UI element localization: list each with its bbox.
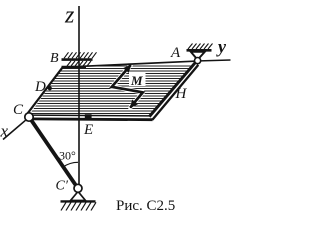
- pin circle at C': [74, 184, 82, 192]
- plate left edge B-C: [28, 67, 64, 114]
- E point tick on bottom edge: [85, 114, 92, 118]
- ground line under C': [61, 200, 96, 202]
- y axis: [201, 59, 231, 62]
- pin support at A: triangle: [191, 52, 205, 60]
- svg-text:30°: 30°: [59, 149, 76, 163]
- svg-text:C′: C′: [56, 179, 69, 194]
- svg-text:x: x: [0, 122, 9, 141]
- wall support at B: hatch strokes between lines: [67, 61, 91, 66]
- svg-text:z: z: [64, 3, 75, 29]
- svg-text:M: M: [130, 73, 143, 88]
- 30 degree arc: [63, 162, 78, 167]
- plate bottom surface edge C-corner: [32, 114, 150, 117]
- pin circle at C: [25, 113, 33, 121]
- couple M top arrowhead: [123, 64, 131, 73]
- svg-text:A: A: [170, 45, 181, 61]
- white hole in hatching around couple M arrows: [112, 65, 143, 108]
- pin support at A: ceiling line: [187, 49, 212, 52]
- svg-text:y: y: [216, 37, 227, 57]
- wall support at B: upper wall line: [62, 58, 93, 61]
- white box behind M label: [129, 72, 146, 86]
- ground hatch strokes: [61, 202, 96, 210]
- svg-text:E: E: [83, 122, 93, 138]
- plate right thickness line: [152, 65, 198, 120]
- x axis: [3, 120, 26, 139]
- plate top edge B-A: [63, 61, 195, 67]
- D point dot: [48, 86, 52, 90]
- pin support at A: hatch strokes above ceiling: [188, 44, 213, 50]
- pin circle at A: [195, 58, 201, 64]
- plate hatching (horizontal shading lines of plate surface): [20, 66, 200, 114]
- strut rod C-C': [32, 121, 77, 187]
- svg-text:H: H: [175, 86, 188, 102]
- wall support at B: lower wall line: [62, 66, 87, 69]
- couple M arrows (black): [112, 65, 143, 108]
- svg-text:B: B: [50, 51, 59, 66]
- couple M bottom arrowhead: [130, 100, 138, 109]
- svg-text:C: C: [13, 102, 24, 118]
- svg-text:D: D: [34, 79, 46, 95]
- plate bottom thickness line: [31, 118, 153, 122]
- pin support at C': triangle: [71, 192, 86, 201]
- z axis: [78, 6, 80, 185]
- plate right edge A-corner: [149, 62, 195, 116]
- svg-text:Рис. С2.5: Рис. С2.5: [116, 198, 175, 214]
- wall support at B: hatch strokes above upper line: [64, 52, 97, 58]
